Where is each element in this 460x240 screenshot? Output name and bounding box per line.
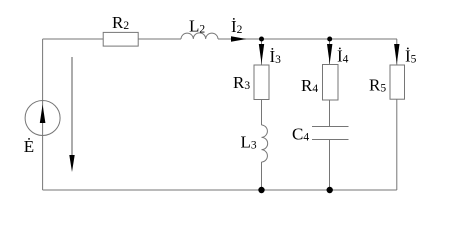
- capacitor C4: [312, 127, 349, 140]
- resistor R5: [390, 65, 405, 99]
- voltage arrowhead: [69, 155, 74, 172]
- node dot top left: [259, 37, 264, 42]
- wire left side: [42, 39, 44, 190]
- source E arrow: [40, 105, 46, 124]
- wire top: left corner to L2 start: [43, 38, 181, 40]
- arrow I5: [394, 44, 399, 64]
- wire below L3: [261, 162, 263, 190]
- wire bottom: [43, 189, 397, 191]
- node dot top right: [327, 37, 332, 42]
- node dot bottom right: [327, 187, 333, 193]
- resistor R4: [323, 65, 339, 101]
- wire branch C4 lower: [329, 140, 331, 191]
- arrow I2: [231, 36, 247, 41]
- resistor R2: [103, 32, 138, 46]
- wire branch R3/L3 vertical: [261, 39, 263, 125]
- arrow I3: [259, 44, 264, 64]
- svg-text:Ė: Ė: [24, 137, 34, 156]
- node dot bottom left: [258, 187, 264, 193]
- resistor R3: [254, 65, 269, 100]
- arrow I4: [327, 44, 332, 64]
- wire branch R4/C4 upper: [329, 39, 331, 127]
- wire right side through R5: [396, 39, 398, 190]
- voltage arrow line: [71, 57, 73, 158]
- source E circle: [25, 101, 60, 136]
- inductor L2: [181, 33, 218, 39]
- wire top: L2 end to top-right corner: [218, 38, 397, 40]
- inductor L3: [262, 125, 268, 162]
